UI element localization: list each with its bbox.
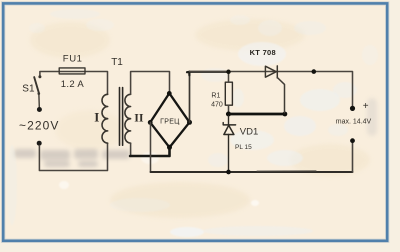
wire R1 top lead (228, 72, 230, 83)
resistor R1 (225, 82, 232, 105)
node VD1 bottom junction (226, 170, 231, 175)
minus output terminal (350, 138, 355, 143)
svg-text:+: + (363, 101, 369, 112)
wire T1 secondary bottom lead (130, 143, 132, 155)
wire bridge left corner down (150, 122, 152, 172)
svg-text:~220V: ~220V (19, 118, 60, 132)
wire minus terminal down to bottom rail (352, 143, 354, 173)
transformer T1 secondary winding II (125, 94, 131, 143)
faint pencil marks right side (367, 98, 377, 136)
beige mottle (30, 19, 370, 218)
transformer T1 core (119, 88, 121, 146)
svg-text:470: 470 (211, 102, 223, 109)
AC input terminal top (37, 107, 42, 112)
svg-text:max. 14.4V: max. 14.4V (336, 118, 372, 125)
plus output terminal (350, 106, 355, 111)
wire T1 secondary top to bridge top (131, 72, 170, 95)
wire thick rail segment bridge to R1 (189, 71, 228, 73)
switch S1 (34, 75, 41, 107)
zener diode VD1 (223, 116, 235, 172)
wire +rail (190, 72, 353, 107)
node R1 top junction (226, 70, 231, 75)
svg-text:R1: R1 (211, 93, 220, 100)
svg-text:S1: S1 (22, 84, 35, 95)
wire AC bottom to T1 primary bottom (39, 143, 107, 170)
wire R1/VD1 to transistor emitter (thick) (227, 113, 285, 116)
svg-text:ГРЕЦ: ГРЕЦ (160, 118, 180, 125)
wire corner thick mark (187, 72, 189, 75)
wire secondary bottom to bridge bottom (thick) (130, 147, 169, 156)
wire bridge right corner up to +rail (189, 72, 191, 123)
svg-text:T1: T1 (111, 57, 123, 68)
wire bottom rail (151, 171, 353, 173)
AC input terminal bottom (37, 141, 42, 146)
svg-text:VD1: VD1 (240, 127, 258, 138)
ghost show-through text band (14, 149, 130, 167)
wire doubled scan line on bottom rail (257, 170, 316, 172)
node on +rail (312, 69, 317, 74)
fuse FU1 (59, 68, 85, 74)
transformer T1 primary winding I (102, 94, 108, 143)
svg-text:FU1: FU1 (63, 54, 83, 65)
svg-text:II: II (134, 110, 144, 124)
wire switch to fuse to T1 primary top (40, 72, 108, 95)
svg-text:I: I (94, 110, 99, 125)
svg-text:PL 15: PL 15 (235, 144, 252, 151)
wire transistor lead down (277, 78, 284, 113)
bridge corner junction dots (148, 91, 192, 150)
node R1 bottom / VD1 top junction (226, 112, 231, 117)
wire R1 bottom lead (228, 105, 230, 114)
transistor KT708 (265, 66, 277, 78)
node thick wire right junction (283, 112, 288, 117)
svg-text:1.2 A: 1.2 A (61, 79, 85, 90)
svg-text:KT 708: KT 708 (250, 48, 276, 57)
bridge rectifier diamond (150, 93, 189, 147)
